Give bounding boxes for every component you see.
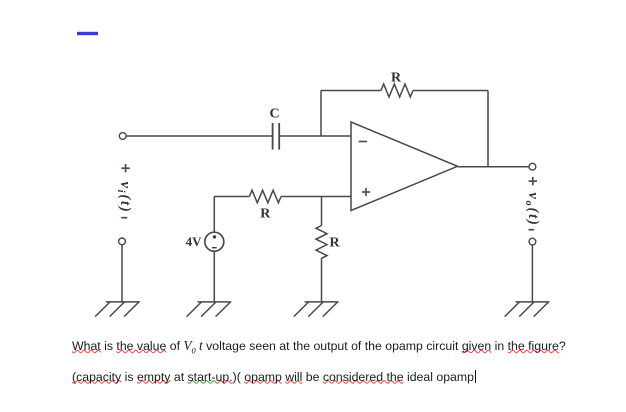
label R shunt (330, 236, 341, 251)
source 4V (205, 232, 224, 251)
resistor R shunt (316, 226, 327, 259)
svg-text:R: R (260, 207, 271, 222)
label + vi terminal (121, 164, 129, 172)
svg-text:vo(t): vo(t) (523, 192, 541, 226)
wire op-amp output (458, 166, 529, 168)
label - vo terminal (529, 229, 535, 231)
node input terminal bottom (vi-) (119, 238, 126, 245)
svg-text:4V: 4V (186, 234, 203, 249)
node output terminal bottom (vo-) (529, 238, 536, 245)
wire shunt resistor bottom (321, 258, 323, 302)
label R feedback (391, 71, 402, 86)
svg-text:R: R (330, 236, 341, 251)
capacitor C (273, 123, 280, 150)
resistor R series input (249, 190, 281, 203)
ground under 4V source (187, 302, 232, 317)
blue dash marker (77, 32, 98, 35)
label vi(t) (115, 182, 133, 214)
wire feedback top left (321, 90, 381, 92)
question text line 1 (72, 339, 566, 355)
wire 4V source top (213, 197, 215, 233)
question text line 2 (72, 370, 476, 383)
label + vo terminal (529, 177, 537, 185)
label 4V (186, 234, 203, 249)
op-amp non-inverting pin mark (362, 188, 370, 196)
wire capacitor to op-amp inverting input (280, 135, 351, 137)
wire feedback left vertical (320, 91, 322, 137)
wire shunt resistor top (321, 197, 323, 226)
node output terminal top (vo+) (529, 163, 536, 170)
label C (269, 107, 279, 122)
label R series (260, 207, 271, 222)
ground under shunt resistor (294, 302, 339, 317)
wire feedback top right (413, 90, 488, 92)
ground under output (505, 302, 550, 317)
ground under input (95, 302, 140, 317)
svg-text:C: C (269, 107, 279, 122)
op-amp U1 (351, 122, 458, 211)
resistor R feedback (381, 84, 413, 97)
wire input bottom terminal to ground (121, 245, 123, 302)
label - vi terminal (121, 217, 127, 219)
label vo(t) (523, 192, 541, 226)
wire 4V source bottom (213, 251, 215, 302)
wire series resistor to op-amp (281, 196, 351, 198)
wire input terminal to capacitor (126, 135, 272, 137)
wire feedback right vertical (487, 91, 489, 167)
node input terminal top (vi+) (119, 133, 126, 140)
svg-text:R: R (391, 71, 402, 86)
op-amp inverting pin mark (359, 141, 368, 143)
wire output bottom terminal to ground (531, 245, 533, 302)
wire non-inverting input (214, 196, 249, 198)
svg-text:vi(t): vi(t) (115, 182, 133, 214)
